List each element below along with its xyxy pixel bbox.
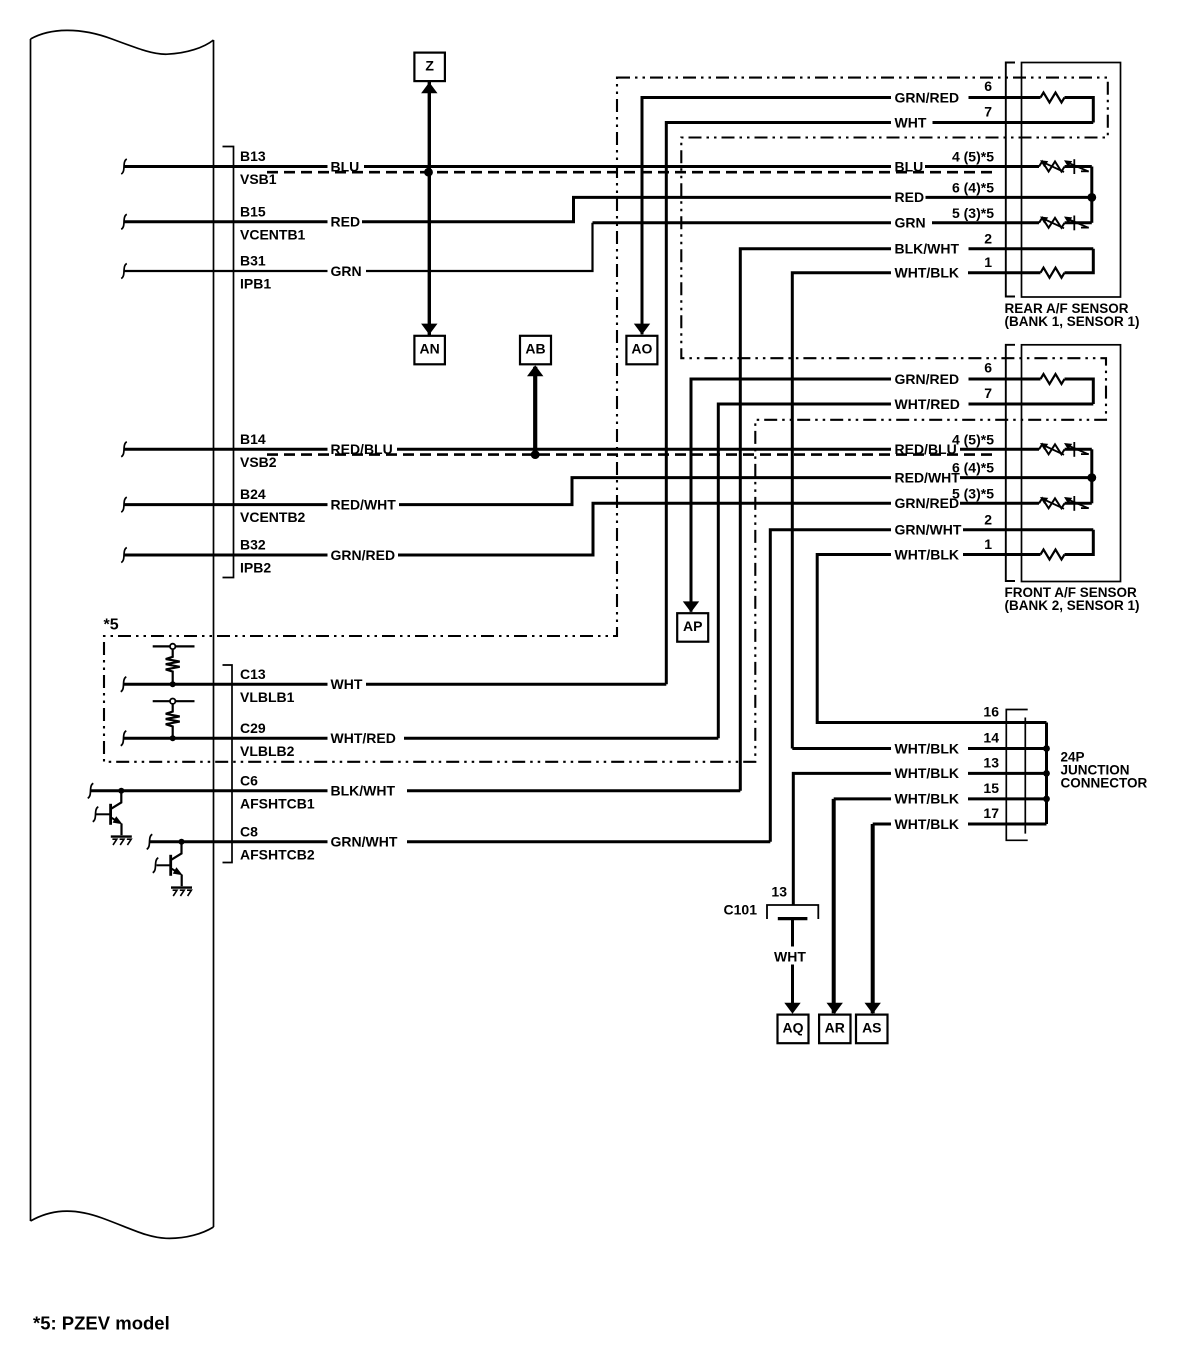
svg-text:WHT: WHT [895, 114, 927, 130]
svg-text:GRN/WHT: GRN/WHT [331, 833, 398, 849]
svg-text:GRN/WHT: GRN/WHT [895, 522, 962, 538]
PZEV dashed wire VSB2 [267, 453, 992, 456]
rear sensor box [1022, 63, 1121, 298]
wire 24P pin 15 WHT/BLK to AR [832, 799, 836, 1013]
wire rear sensor pin 7 WHT to C13 [666, 123, 1093, 685]
sensor cell rear pin 5 [1039, 216, 1092, 231]
wire B31 GRN to rear sensor pin 5(3) [124, 223, 593, 271]
connector AN [414, 336, 445, 365]
ECM/PCM body outline [31, 30, 214, 1238]
front sensor box [1022, 345, 1121, 582]
svg-text:AFSHTCB1: AFSHTCB1 [240, 795, 315, 811]
svg-text:6: 6 [984, 360, 992, 376]
wire front sensor pin 7 WHT/RED to C29 [718, 404, 1093, 738]
wire B24 RED/WHT to front sensor pin 6(4) [124, 478, 1092, 505]
ground (Q2 emitter) [171, 888, 192, 896]
junction dot 24P pin 15 [1043, 796, 1050, 803]
wire AB to VSB2 dashed [533, 367, 537, 455]
connector AS [856, 1015, 888, 1044]
wire 24P pin 14 WHT/BLK [792, 747, 1046, 750]
svg-text:5 (3)*5: 5 (3)*5 [952, 485, 994, 501]
svg-text:WHT/BLK: WHT/BLK [895, 546, 960, 562]
svg-text:VLBLB2: VLBLB2 [240, 743, 295, 759]
svg-text:13: 13 [983, 754, 999, 770]
svg-text:(BANK 1, SENSOR 1): (BANK 1, SENSOR 1) [1005, 314, 1140, 329]
junction dot VSB2 dashed / AB wire [531, 450, 540, 459]
sensor cell rear pin 4 [1039, 159, 1092, 174]
svg-text:VCENTB2: VCENTB2 [240, 509, 306, 525]
PZEV routing dash-dot loop [104, 78, 1108, 762]
svg-text:GRN/RED: GRN/RED [895, 89, 960, 105]
svg-text:Z: Z [425, 57, 434, 73]
svg-text:13: 13 [771, 884, 787, 900]
svg-text:IPB2: IPB2 [240, 560, 271, 576]
wire C13 WHT [124, 683, 667, 686]
svg-text:B31: B31 [240, 253, 266, 269]
connector bracket (B-pin group) [223, 147, 234, 578]
svg-text:1: 1 [984, 254, 992, 270]
svg-text:AP: AP [683, 618, 702, 634]
svg-text:VLBLB1: VLBLB1 [240, 689, 295, 705]
transistor Q1 (AFSHTCB1 driver) [93, 788, 125, 835]
heater loop wire (rear) [1065, 98, 1094, 123]
svg-text:WHT/BLK: WHT/BLK [895, 791, 960, 807]
transistor Q2 (AFSHTCB2 driver) [153, 839, 185, 886]
svg-text:AS: AS [862, 1020, 881, 1036]
svg-text:GRN: GRN [331, 263, 362, 279]
resistor R1 (VLBLB1 pull-up) [153, 645, 195, 647]
svg-text:BLK/WHT: BLK/WHT [895, 241, 960, 257]
svg-text:WHT: WHT [331, 676, 363, 692]
wire front sensor pin 6 GRN/RED to AP [691, 379, 1041, 612]
wire C8 GRN/WHT [150, 840, 771, 843]
wire rear sensor pin 1 WHT/BLK to 24P pin 14 [792, 273, 1040, 749]
ground (Q1 emitter) [111, 837, 132, 845]
connector AB [520, 336, 551, 365]
pin C13 tick [121, 677, 127, 692]
svg-text:WHT/BLK: WHT/BLK [895, 265, 960, 281]
pin C29 tick [121, 731, 127, 746]
PZEV dashed wire VSB1 [267, 171, 992, 174]
svg-text:GRN: GRN [895, 215, 926, 231]
junction dot 24P pin 13 [1043, 770, 1050, 777]
connector AQ [778, 1015, 809, 1044]
svg-text:VCENTB1: VCENTB1 [240, 226, 306, 242]
junction dot R1/C13 [170, 681, 176, 687]
connector AO [626, 336, 657, 365]
wire C29 WHT/RED [124, 737, 719, 740]
svg-text:C101: C101 [724, 902, 758, 918]
svg-text:RED/WHT: RED/WHT [895, 469, 961, 485]
svg-text:C6: C6 [240, 772, 258, 788]
svg-text:AO: AO [631, 341, 652, 357]
pin B15 tick [121, 214, 127, 229]
svg-text:6: 6 [984, 78, 992, 94]
resistor R2 (VLBLB2 pull-up) [153, 700, 195, 702]
connector AP [677, 613, 708, 642]
svg-text:7: 7 [984, 104, 992, 120]
wire B13 BLU to rear sensor pin 4 [124, 165, 1039, 168]
svg-text:C13: C13 [240, 666, 266, 682]
junction dot rear cell common [1087, 193, 1096, 202]
svg-text:B15: B15 [240, 203, 266, 219]
junction dot R2/C29 [170, 735, 176, 741]
svg-text:AQ: AQ [783, 1020, 804, 1036]
heater resistor (front) [1041, 374, 1065, 384]
wire 24P pin 13 WHT/BLK to C101 [793, 773, 1046, 905]
sensor cell common vertical (rear) [1090, 167, 1093, 223]
heater loop wire (front) [1065, 379, 1094, 404]
svg-text:14: 14 [983, 730, 999, 746]
pin B13 tick [121, 159, 127, 174]
pin B31 tick [121, 264, 127, 279]
svg-text:C29: C29 [240, 720, 266, 736]
connector Z [414, 53, 445, 82]
wire C6 BLK/WHT [91, 789, 741, 792]
svg-text:WHT/BLK: WHT/BLK [895, 765, 960, 781]
wire B15 RED to rear sensor pin 6(4) [124, 197, 1092, 221]
svg-text:1: 1 [984, 536, 992, 552]
svg-text:2: 2 [984, 511, 992, 527]
svg-text:4 (5)*5: 4 (5)*5 [952, 149, 994, 165]
bottom resistor (front pins 2-1) [1065, 530, 1094, 555]
wire 24P pin 17 WHT/BLK to AS [871, 824, 875, 1013]
connector AR [819, 1015, 850, 1044]
heater resistor (rear) [1041, 93, 1065, 103]
svg-text:AN: AN [419, 341, 439, 357]
svg-text:RED: RED [895, 189, 925, 205]
wire rear sensor pin 6 GRN/RED to AO [642, 98, 1041, 335]
svg-text:4 (5)*5: 4 (5)*5 [952, 431, 994, 447]
svg-text:BLK/WHT: BLK/WHT [331, 782, 396, 798]
svg-text:WHT/RED: WHT/RED [331, 730, 396, 746]
svg-text:7: 7 [984, 385, 992, 401]
svg-text:6 (4)*5: 6 (4)*5 [952, 460, 994, 476]
svg-text:VSB2: VSB2 [240, 454, 277, 470]
pin B24 tick [121, 497, 127, 512]
svg-text:16: 16 [983, 704, 999, 720]
svg-text:GRN/RED: GRN/RED [895, 371, 960, 387]
svg-text:WHT/BLK: WHT/BLK [895, 816, 960, 832]
sensor cell front pin 5 [1039, 496, 1092, 511]
svg-text:AFSHTCB2: AFSHTCB2 [240, 846, 315, 862]
svg-text:RED: RED [331, 214, 361, 230]
bottom resistor (rear pins 2-1) [1065, 249, 1094, 273]
pin B14 tick [121, 442, 127, 457]
wire rear sensor pin 2 BLK/WHT to C6 [740, 249, 1093, 791]
connector bracket (C-pin group) [223, 665, 233, 863]
pin C6 tick [88, 783, 94, 798]
svg-text:B24: B24 [240, 486, 266, 502]
sensor cell common vertical (front) [1090, 449, 1093, 503]
svg-text:C8: C8 [240, 823, 258, 839]
svg-text:6 (4)*5: 6 (4)*5 [952, 179, 994, 195]
svg-text:GRN/RED: GRN/RED [895, 495, 960, 511]
svg-text:WHT/RED: WHT/RED [895, 396, 960, 412]
svg-text:17: 17 [983, 805, 999, 821]
wire C101 WHT to AQ [791, 919, 794, 1004]
junction dot VSB1 dashed / Z-AN wire [424, 168, 433, 177]
24P junction connector body [1006, 710, 1027, 841]
connector C101 [767, 905, 818, 919]
svg-text:WHT/BLK: WHT/BLK [895, 740, 960, 756]
svg-text:RED/WHT: RED/WHT [331, 496, 397, 512]
svg-text:5 (3)*5: 5 (3)*5 [952, 205, 994, 221]
wire Z to AN [428, 81, 431, 336]
svg-text:*5: PZEV model: *5: PZEV model [33, 1313, 170, 1334]
front sensor connector bracket [1006, 345, 1015, 581]
sensor cell front pin 4 [1039, 442, 1092, 457]
svg-text:AB: AB [525, 341, 545, 357]
wire front sensor pin 2 GRN/WHT to C8 [770, 530, 1093, 842]
svg-text:*5: *5 [104, 617, 119, 634]
junction dot front cell common [1087, 473, 1096, 482]
svg-text:GRN/RED: GRN/RED [331, 547, 396, 563]
24P busbar [1045, 723, 1048, 825]
wire B32 GRN/RED to front sensor pin 5(3) [124, 503, 1039, 555]
svg-text:B32: B32 [240, 537, 266, 553]
svg-text:2: 2 [984, 230, 992, 246]
svg-text:CONNECTOR: CONNECTOR [1061, 776, 1148, 791]
junction dot 24P pin 14 [1043, 745, 1050, 752]
svg-text:IPB1: IPB1 [240, 276, 271, 292]
pin C8 tick [147, 834, 153, 849]
wire front sensor pin 1 WHT/BLK to 24P pin 16 [817, 555, 1046, 723]
pin B32 tick [121, 548, 127, 563]
svg-text:15: 15 [983, 780, 999, 796]
svg-text:(BANK 2, SENSOR 1): (BANK 2, SENSOR 1) [1005, 598, 1140, 613]
svg-text:B13: B13 [240, 148, 266, 164]
svg-text:B14: B14 [240, 431, 266, 447]
rear sensor connector bracket [1006, 63, 1015, 297]
svg-text:WHT: WHT [774, 949, 806, 965]
wire B14 RED/BLU to front sensor pin 4 [124, 448, 1039, 451]
svg-text:AR: AR [825, 1020, 845, 1036]
